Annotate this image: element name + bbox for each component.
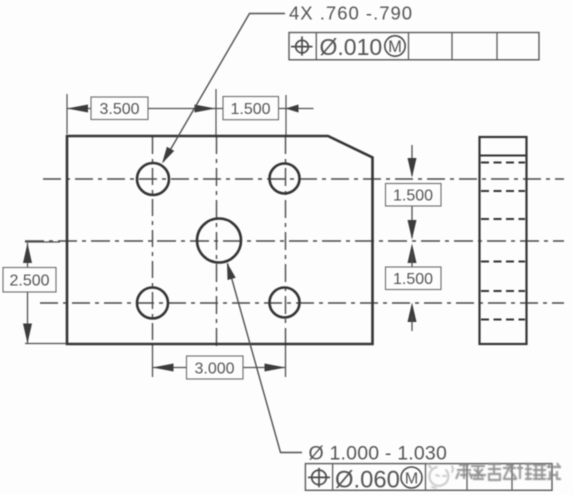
svg-text:M: M <box>405 470 418 487</box>
dimension 1.500 right upper: line and arrows <box>408 145 417 240</box>
dimension box 2.500 <box>3 268 56 293</box>
dimension line 3.500 / 1.500 top <box>67 108 314 110</box>
arrow left of 3.500 <box>67 105 88 113</box>
tolerance text .060 <box>335 467 400 494</box>
hole bottom-right <box>270 288 300 318</box>
plate outline with chamfer <box>67 136 373 344</box>
row centerline bottom holes <box>40 302 564 304</box>
svg-text:1.500: 1.500 <box>393 271 433 288</box>
dimension box 1.500 right upper <box>386 184 442 207</box>
arrow up 2.500 <box>23 243 32 263</box>
svg-text:1.500: 1.500 <box>393 188 433 205</box>
extension tick 2.500 bottom <box>25 343 66 345</box>
arrow right of 3.500 <box>195 105 216 113</box>
svg-text:2.500: 2.500 <box>9 273 49 290</box>
arrow right 3.000 <box>265 364 286 372</box>
dimension box 1.500 top <box>223 97 279 120</box>
column centerline center hole <box>215 89 218 346</box>
svg-text:3.500: 3.500 <box>99 101 139 118</box>
side view hidden line bottom hole upper <box>481 290 525 292</box>
arrow left 3.000 <box>153 364 174 372</box>
arrow right of 1.500 top <box>286 105 299 113</box>
extension line plate left edge above <box>66 94 68 134</box>
side view hidden line top hole upper <box>481 161 525 163</box>
column centerline left holes <box>152 137 154 346</box>
svg-text:M: M <box>388 38 402 56</box>
position symbol bottom frame <box>308 468 330 488</box>
extension line left hole column below plate <box>152 346 154 377</box>
extension tick 2.500 top <box>25 241 60 243</box>
hole top-right <box>270 164 300 194</box>
tolerance text .010 <box>320 34 383 60</box>
leader for 4X holes note <box>162 14 285 164</box>
note text 4X .760 -.790 <box>289 3 413 24</box>
side view outline <box>480 137 527 344</box>
feature control frame top: outer box <box>289 33 539 60</box>
row centerline top holes <box>43 178 564 180</box>
arrow down 2.500 <box>23 324 32 344</box>
svg-text:4X .760 -.790: 4X .760 -.790 <box>289 3 413 24</box>
svg-text:3.000: 3.000 <box>194 361 234 378</box>
side view hidden line bottom hole lower <box>481 318 525 320</box>
extension line right hole column below plate <box>285 346 287 377</box>
watermark text <box>456 463 561 480</box>
hole bottom-left <box>137 288 168 319</box>
dimension box 1.500 right lower <box>386 267 442 290</box>
dimension box 3.500 <box>91 97 148 120</box>
svg-text:Ø.010: Ø.010 <box>320 34 383 60</box>
row centerline middle <box>25 240 564 242</box>
dimension line 2.500 <box>27 243 29 344</box>
dimension 1.500 right lower: line and arrows <box>408 244 417 332</box>
MMC modifier top frame <box>385 36 405 56</box>
svg-text:Ø 1.000 - 1.030: Ø 1.000 - 1.030 <box>309 443 448 465</box>
watermark logo icon <box>428 464 453 488</box>
column centerline right holes <box>285 95 288 346</box>
dimension box 3.000 <box>187 356 244 379</box>
hole top-left <box>137 163 169 195</box>
dimension line 3.000 bottom <box>153 367 286 369</box>
side view hidden line center hole lower <box>481 260 525 262</box>
feature control frame bottom: outer box <box>305 464 552 491</box>
side view chamfer edge line <box>480 155 526 157</box>
svg-text:Ø.060: Ø.060 <box>335 467 400 494</box>
note text diameter 1.000 - 1.030 <box>309 443 448 465</box>
svg-text:1.500: 1.500 <box>230 101 270 118</box>
side view hidden line center hole upper <box>481 218 525 220</box>
MMC modifier bottom frame <box>401 467 422 488</box>
side view hidden line top hole lower <box>481 190 525 192</box>
position symbol top frame <box>291 36 313 55</box>
leader for center hole note <box>227 263 302 453</box>
hole center <box>197 219 241 263</box>
